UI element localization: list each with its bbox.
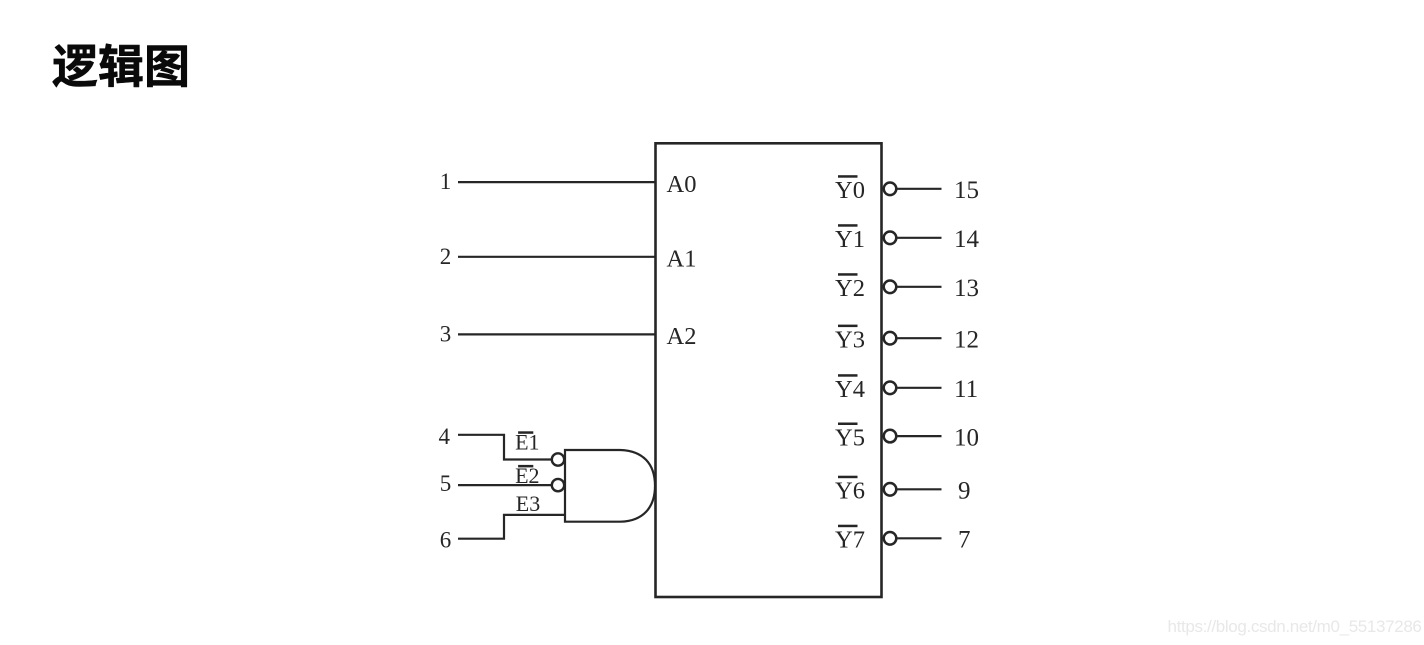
svg-text:Y5: Y5 <box>835 424 865 451</box>
bubble Y7 <box>884 532 897 545</box>
AND gate G1 <box>565 450 655 522</box>
svg-text:A1: A1 <box>667 246 697 273</box>
bubble Y1 <box>884 232 897 245</box>
wire pin 4 to E1 bubble <box>458 435 551 460</box>
output label Y2 overbar <box>838 273 858 276</box>
output label Y7 overbar <box>838 525 858 528</box>
svg-text:6: 6 <box>440 528 452 553</box>
wire Y2 to pin 13 <box>898 286 942 288</box>
svg-text:A2: A2 <box>667 323 697 350</box>
svg-text:5: 5 <box>440 471 452 496</box>
svg-text:E1: E1 <box>515 429 539 454</box>
wire Y3 to pin 12 <box>898 337 942 339</box>
svg-text:Y2: Y2 <box>835 275 865 302</box>
output label Y3 overbar <box>838 325 858 328</box>
svg-text:4: 4 <box>438 424 450 449</box>
output label Y6 overbar <box>838 476 858 479</box>
label E1 overbar <box>518 431 533 434</box>
svg-text:A0: A0 <box>667 171 697 198</box>
wire pin 5 to E2 bubble <box>458 484 551 486</box>
bubble Y2 <box>884 281 897 294</box>
bubble Y3 <box>884 332 897 345</box>
svg-text:15: 15 <box>954 177 979 204</box>
bubble E2 <box>552 479 564 491</box>
wire Y5 to pin 10 <box>898 435 942 437</box>
svg-text:E3: E3 <box>516 491 540 516</box>
svg-text:https://blog.csdn.net/m0_55137: https://blog.csdn.net/m0_55137286 <box>1168 617 1422 636</box>
svg-text:7: 7 <box>958 527 971 554</box>
wire pin 1 to A0 <box>458 181 656 183</box>
svg-text:1: 1 <box>440 169 452 194</box>
label E2 overbar <box>518 465 533 468</box>
svg-text:13: 13 <box>954 275 979 302</box>
bubble Y4 <box>884 382 897 395</box>
svg-text:11: 11 <box>954 376 978 403</box>
wire Y6 to pin 9 <box>898 488 942 490</box>
wire Y7 to pin 7 <box>898 537 942 539</box>
svg-text:12: 12 <box>954 326 979 353</box>
svg-text:Y7: Y7 <box>835 527 865 554</box>
decoder box U1 <box>656 143 882 597</box>
svg-text:Y0: Y0 <box>835 177 865 204</box>
bubble Y6 <box>884 483 897 496</box>
svg-text:E2: E2 <box>515 463 539 488</box>
output label Y4 overbar <box>838 374 858 377</box>
output label Y0 overbar <box>838 175 858 178</box>
svg-text:2: 2 <box>440 244 452 269</box>
svg-text:Y4: Y4 <box>835 376 865 403</box>
wire Y4 to pin 11 <box>898 387 942 389</box>
bubble Y5 <box>884 430 897 443</box>
bubble E1 <box>552 453 564 465</box>
svg-text:Y6: Y6 <box>835 478 865 505</box>
output label Y1 overbar <box>838 224 858 227</box>
wire pin 6 to E3 input <box>458 515 565 539</box>
svg-text:3: 3 <box>440 321 452 346</box>
wire pin 3 to A2 <box>458 333 656 335</box>
title 逻辑图 <box>53 44 187 87</box>
wire pin 2 to A1 <box>458 256 656 258</box>
svg-text:9: 9 <box>958 478 971 505</box>
svg-text:Y1: Y1 <box>835 226 865 253</box>
svg-text:14: 14 <box>954 226 980 253</box>
bubble Y0 <box>884 183 897 196</box>
wire Y1 to pin 14 <box>898 237 942 239</box>
svg-text:10: 10 <box>954 424 979 451</box>
svg-text:Y3: Y3 <box>835 326 865 353</box>
output label Y5 overbar <box>838 423 858 426</box>
wire Y0 to pin 15 <box>898 188 942 190</box>
